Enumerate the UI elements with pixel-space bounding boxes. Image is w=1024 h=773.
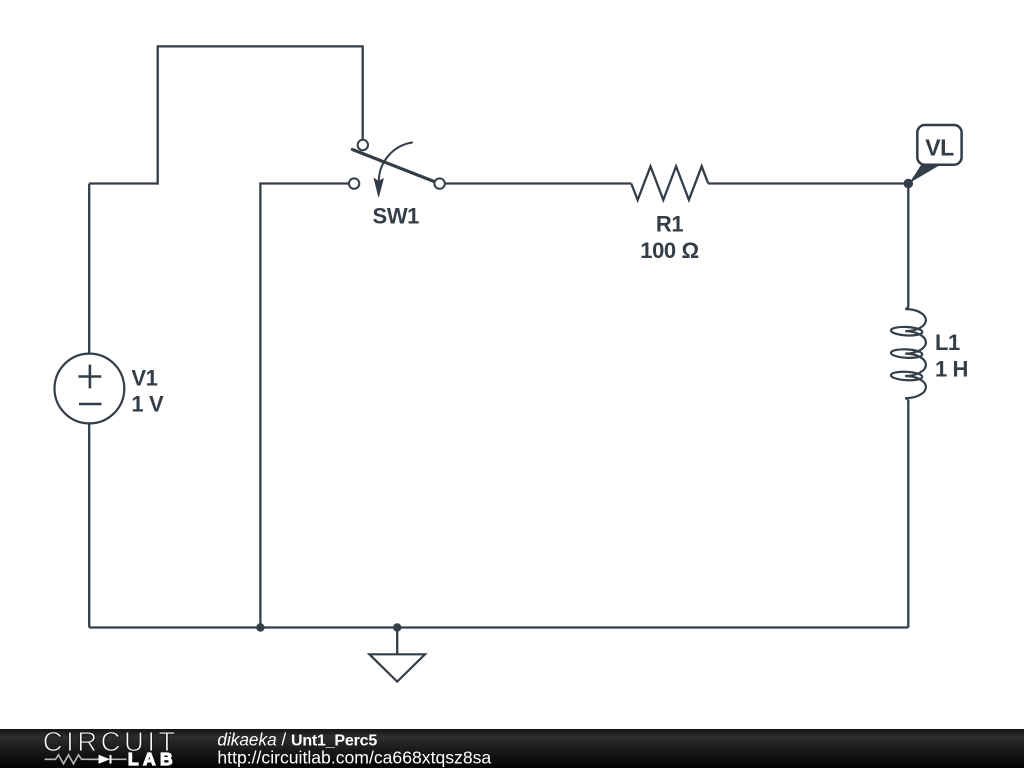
svg-text:R1: R1 bbox=[656, 212, 683, 237]
wire V1 bottom to ground rail bbox=[88, 423, 90, 627]
CircuitLab logo bbox=[43, 726, 179, 757]
node VL flag box bbox=[917, 125, 961, 165]
svg-text:1 V: 1 V bbox=[131, 392, 164, 417]
svg-text:L1: L1 bbox=[935, 330, 960, 355]
wire R1 to VL node bbox=[708, 182, 908, 184]
wire L1 bottom to rail bbox=[907, 401, 909, 628]
ground bbox=[369, 654, 425, 681]
switch SW1 bbox=[349, 140, 445, 197]
switch terminal top bbox=[358, 140, 368, 150]
svg-text:100 Ω: 100 Ω bbox=[640, 238, 698, 263]
switch terminal common bbox=[434, 178, 444, 188]
wire top-left horizontal (V1+ to switch column) bbox=[89, 46, 363, 183]
svg-text:V1: V1 bbox=[131, 365, 157, 390]
switch arm bbox=[352, 150, 433, 182]
V1 plus sign bbox=[78, 375, 101, 378]
node VL dot bbox=[904, 179, 914, 189]
svg-text:1 H: 1 H bbox=[935, 356, 968, 381]
voltage source V1 body bbox=[55, 354, 125, 424]
svg-text:http://circuitlab.com/ca668xtq: http://circuitlab.com/ca668xtqsz8sa bbox=[217, 747, 491, 767]
junction dot (ground) bbox=[393, 623, 401, 631]
wire V1 top bbox=[88, 184, 90, 354]
wire ground stub bbox=[396, 628, 398, 655]
wire VL node down to L1 bbox=[907, 184, 909, 307]
logo squiggle (resistor + diode) bbox=[45, 755, 127, 764]
wire switch throw B horizontal bbox=[260, 184, 348, 628]
svg-text:SW1: SW1 bbox=[373, 204, 420, 229]
junction dot (mid rail) bbox=[256, 623, 264, 631]
resistor R1 bbox=[631, 166, 708, 200]
svg-text:LAB: LAB bbox=[128, 749, 177, 768]
node VL flag pointer bbox=[909, 165, 940, 183]
svg-text:VL: VL bbox=[925, 134, 954, 160]
wire bottom rail bbox=[89, 626, 908, 628]
footer bar bbox=[0, 729, 1024, 768]
switch terminal throw B bbox=[349, 178, 359, 188]
V1 minus sign bbox=[79, 403, 102, 406]
wire switch common to R1 bbox=[445, 182, 631, 184]
inductor L1 bbox=[891, 306, 926, 402]
switch motion arrow bbox=[379, 142, 413, 182]
